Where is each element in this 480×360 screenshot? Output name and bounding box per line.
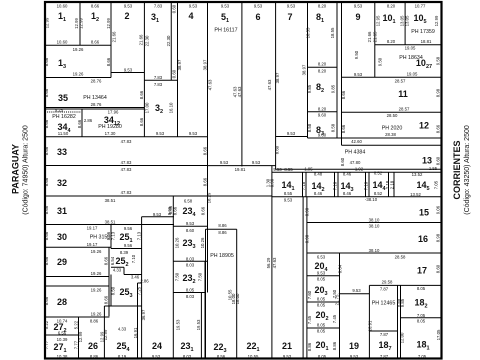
svg-text:8.66: 8.66 <box>44 88 49 97</box>
svg-text:47.63: 47.63 <box>267 79 272 90</box>
svg-text:8.05: 8.05 <box>317 303 326 308</box>
svg-text:PH 2020: PH 2020 <box>382 126 403 132</box>
svg-text:42.60: 42.60 <box>351 139 362 144</box>
svg-text:12.99: 12.99 <box>106 18 111 29</box>
svg-text:19.05: 19.05 <box>407 72 418 77</box>
svg-text:19.26: 19.26 <box>91 312 102 317</box>
svg-text:9.53: 9.53 <box>317 271 326 276</box>
svg-text:12.99: 12.99 <box>79 18 84 29</box>
svg-text:8.46: 8.46 <box>314 191 323 196</box>
svg-text:8.66: 8.66 <box>341 90 346 99</box>
wire verticals top row <box>79 2 81 45</box>
svg-text:9.53: 9.53 <box>153 212 162 217</box>
svg-text:10.74: 10.74 <box>57 318 68 323</box>
svg-text:36.97: 36.97 <box>141 309 146 320</box>
svg-text:9.85: 9.85 <box>307 84 312 93</box>
svg-text:7.87: 7.87 <box>380 286 389 291</box>
svg-text:8.66: 8.66 <box>104 295 109 304</box>
svg-text:8.66: 8.66 <box>139 90 144 99</box>
svg-text:8.66: 8.66 <box>104 256 109 265</box>
svg-text:21.66: 21.66 <box>112 31 117 42</box>
svg-text:12.99: 12.99 <box>78 331 83 342</box>
svg-text:2.86: 2.86 <box>84 118 93 123</box>
svg-text:30: 30 <box>57 232 67 242</box>
svg-text:2.18: 2.18 <box>389 180 394 189</box>
svg-text:0.60: 0.60 <box>171 69 176 78</box>
svg-text:9.53: 9.53 <box>186 221 195 226</box>
svg-text:47.83: 47.83 <box>121 167 132 172</box>
svg-text:6.56: 6.56 <box>58 331 67 336</box>
svg-text:8.98: 8.98 <box>305 207 310 216</box>
svg-text:19.05: 19.05 <box>405 45 416 50</box>
svg-text:9.53: 9.53 <box>220 160 229 165</box>
svg-text:PH 13464: PH 13464 <box>83 95 107 101</box>
svg-text:47.80: 47.80 <box>350 160 361 165</box>
svg-text:10.55: 10.55 <box>248 354 259 359</box>
svg-text:47.83: 47.83 <box>121 160 132 165</box>
svg-text:8.52: 8.52 <box>374 191 383 196</box>
svg-text:12.00: 12.00 <box>399 332 404 343</box>
svg-text:10.77: 10.77 <box>415 3 426 8</box>
top right PH box / 8 col <box>375 44 442 46</box>
svg-text:10.26: 10.26 <box>200 237 205 248</box>
left lower verticals <box>78 317 80 359</box>
svg-text:12.95: 12.95 <box>376 15 381 26</box>
wire horizontals <box>45 44 111 46</box>
svg-text:13.52: 13.52 <box>412 172 423 177</box>
svg-text:9.25: 9.25 <box>55 107 64 112</box>
svg-text:8.55: 8.55 <box>284 167 293 172</box>
svg-text:8.86: 8.86 <box>307 342 312 351</box>
svg-text:17: 17 <box>417 265 427 275</box>
19/18 region <box>368 285 370 358</box>
svg-text:8.66: 8.66 <box>341 124 346 133</box>
svg-text:13.05: 13.05 <box>404 15 409 26</box>
svg-text:21.75: 21.75 <box>335 294 340 305</box>
svg-text:22.30: 22.30 <box>144 35 149 46</box>
svg-text:10.60: 10.60 <box>57 3 68 8</box>
svg-text:5.22: 5.22 <box>44 320 49 329</box>
svg-text:16.91: 16.91 <box>133 327 138 338</box>
svg-text:28.57: 28.57 <box>399 107 410 112</box>
svg-text:7.60: 7.60 <box>307 290 312 299</box>
svg-text:9.53: 9.53 <box>352 288 361 293</box>
svg-text:8.66: 8.66 <box>436 124 441 133</box>
svg-text:7.10: 7.10 <box>131 254 136 263</box>
svg-text:PH 16117: PH 16117 <box>214 28 237 34</box>
svg-text:19.17: 19.17 <box>87 226 98 231</box>
svg-text:8.66: 8.66 <box>44 119 49 128</box>
svg-text:8.60: 8.60 <box>436 264 441 273</box>
svg-text:8.05: 8.05 <box>318 354 327 359</box>
svg-text:8.05: 8.05 <box>317 297 326 302</box>
svg-text:28.57: 28.57 <box>395 78 406 83</box>
svg-text:7.18: 7.18 <box>301 181 306 190</box>
svg-text:17.00: 17.00 <box>145 102 150 113</box>
svg-text:19: 19 <box>349 341 359 351</box>
svg-text:0.60: 0.60 <box>171 4 176 13</box>
svg-text:31: 31 <box>57 206 67 216</box>
svg-text:18.81: 18.81 <box>421 39 432 44</box>
svg-text:8.66: 8.66 <box>44 256 49 265</box>
svg-text:38.51: 38.51 <box>105 220 116 225</box>
svg-text:5.22: 5.22 <box>74 320 79 329</box>
svg-text:8.52: 8.52 <box>374 171 383 176</box>
svg-text:10.55: 10.55 <box>228 289 233 300</box>
svg-text:28.76: 28.76 <box>91 79 102 84</box>
svg-text:7.83: 7.83 <box>154 3 163 8</box>
svg-text:8.98: 8.98 <box>436 233 441 242</box>
svg-text:19.53: 19.53 <box>175 319 180 330</box>
svg-text:4.33: 4.33 <box>113 268 122 273</box>
svg-text:12.99: 12.99 <box>103 329 108 340</box>
svg-text:9.53: 9.53 <box>354 3 363 8</box>
svg-text:9.53: 9.53 <box>287 3 296 8</box>
svg-text:PH 4384: PH 4384 <box>345 150 366 156</box>
svg-text:13.52: 13.52 <box>410 192 421 197</box>
svg-text:9.53: 9.53 <box>283 354 292 359</box>
svg-text:38.97: 38.97 <box>275 72 280 83</box>
svg-text:21.66: 21.66 <box>139 34 144 45</box>
svg-text:18.55: 18.55 <box>330 27 335 38</box>
svg-text:8.86: 8.86 <box>218 223 227 228</box>
svg-text:19.53: 19.53 <box>196 319 201 330</box>
svg-text:6.53: 6.53 <box>317 255 326 260</box>
svg-text:8.66: 8.66 <box>139 117 144 126</box>
svg-text:26: 26 <box>88 341 98 351</box>
svg-text:9: 9 <box>355 12 360 22</box>
svg-text:35: 35 <box>58 93 68 103</box>
svg-text:9.53: 9.53 <box>189 3 198 8</box>
svg-text:7.45: 7.45 <box>307 315 312 324</box>
svg-text:(Código: 74950) Altura: 2500: (Código: 74950) Altura: 2500 <box>23 125 30 215</box>
svg-text:8.58: 8.58 <box>331 123 336 132</box>
svg-text:9.53: 9.53 <box>156 131 165 136</box>
svg-text:8.66: 8.66 <box>202 177 207 186</box>
svg-text:38.51: 38.51 <box>105 198 116 203</box>
svg-text:8.58: 8.58 <box>307 123 312 132</box>
svg-text:19.26: 19.26 <box>73 72 84 77</box>
svg-text:9.06: 9.06 <box>436 205 441 214</box>
svg-text:13: 13 <box>422 156 432 166</box>
svg-text:7.87: 7.87 <box>380 354 389 359</box>
svg-text:19.17: 19.17 <box>87 242 98 247</box>
svg-text:9.58: 9.58 <box>436 56 441 65</box>
svg-text:8.86: 8.86 <box>332 341 337 350</box>
svg-text:7.25: 7.25 <box>136 286 141 295</box>
svg-text:8.66: 8.66 <box>44 177 49 186</box>
svg-text:9.53: 9.53 <box>254 3 263 8</box>
svg-text:33: 33 <box>57 147 67 157</box>
svg-text:7.05: 7.05 <box>418 354 427 359</box>
svg-text:8.98: 8.98 <box>305 234 310 243</box>
svg-text:16.10: 16.10 <box>169 102 174 113</box>
svg-text:PH 17359: PH 17359 <box>411 29 435 35</box>
svg-text:8.86: 8.86 <box>90 354 99 359</box>
svg-text:7: 7 <box>287 12 292 22</box>
svg-text:8.60: 8.60 <box>436 156 441 165</box>
svg-text:12: 12 <box>419 121 429 131</box>
svg-text:4: 4 <box>188 11 193 21</box>
svg-text:8.48: 8.48 <box>314 171 323 176</box>
svg-text:3.46: 3.46 <box>131 274 140 279</box>
svg-text:15: 15 <box>419 208 429 218</box>
svg-text:PH 18634: PH 18634 <box>399 55 423 61</box>
svg-text:8.20: 8.20 <box>318 61 327 66</box>
svg-text:10.39: 10.39 <box>57 337 68 342</box>
svg-text:6.58: 6.58 <box>184 198 193 203</box>
svg-text:7.45: 7.45 <box>332 314 337 323</box>
svg-text:38.97: 38.97 <box>302 64 307 75</box>
svg-text:7.50: 7.50 <box>174 272 179 281</box>
svg-text:8.86: 8.86 <box>90 318 99 323</box>
svg-text:9.56: 9.56 <box>124 243 133 248</box>
svg-text:8.03: 8.03 <box>186 263 195 268</box>
svg-text:8.20: 8.20 <box>387 39 396 44</box>
svg-text:22.30: 22.30 <box>166 35 171 46</box>
svg-text:7.83: 7.83 <box>154 82 163 87</box>
svg-text:8.46: 8.46 <box>343 191 352 196</box>
svg-text:8.60: 8.60 <box>186 228 195 233</box>
svg-text:9.53: 9.53 <box>252 160 261 165</box>
svg-text:10.26: 10.26 <box>174 237 179 248</box>
svg-text:8.86: 8.86 <box>218 230 227 235</box>
svg-text:PH 19280: PH 19280 <box>98 124 122 130</box>
svg-text:8.66: 8.66 <box>201 206 206 215</box>
svg-text:19.26: 19.26 <box>91 249 102 254</box>
svg-text:8.66: 8.66 <box>173 206 178 215</box>
svg-text:8.60: 8.60 <box>275 145 280 154</box>
svg-text:28.38: 28.38 <box>385 132 396 137</box>
svg-text:8.39: 8.39 <box>120 250 129 255</box>
svg-text:8.66: 8.66 <box>202 146 207 155</box>
svg-text:8.66: 8.66 <box>44 231 49 240</box>
svg-text:8.60: 8.60 <box>340 157 345 166</box>
svg-text:7.77: 7.77 <box>44 340 49 349</box>
svg-text:7.18: 7.18 <box>363 181 368 190</box>
svg-text:9.53: 9.53 <box>354 72 363 77</box>
svg-text:8.66: 8.66 <box>91 40 100 45</box>
svg-text:PARAGUAY: PARAGUAY <box>11 144 21 194</box>
svg-text:47.83: 47.83 <box>121 139 132 144</box>
svg-text:12.99: 12.99 <box>44 17 49 28</box>
svg-text:1.55: 1.55 <box>429 166 438 171</box>
svg-text:9.85: 9.85 <box>400 298 405 307</box>
svg-text:8.05: 8.05 <box>417 318 426 323</box>
svg-text:8.05: 8.05 <box>317 329 326 334</box>
svg-text:9.50: 9.50 <box>378 57 383 66</box>
svg-text:38.97: 38.97 <box>202 59 207 70</box>
svg-text:8.98: 8.98 <box>436 88 441 97</box>
svg-text:19.81: 19.81 <box>235 167 246 172</box>
svg-text:38.97: 38.97 <box>177 59 182 70</box>
svg-text:PH 12465: PH 12465 <box>372 301 396 307</box>
svg-text:8.05: 8.05 <box>417 286 426 291</box>
svg-text:8.05: 8.05 <box>317 277 326 282</box>
23 column <box>172 196 174 359</box>
svg-text:9.53: 9.53 <box>284 198 293 203</box>
svg-text:18.55: 18.55 <box>306 27 311 38</box>
svg-text:9.85: 9.85 <box>331 84 336 93</box>
svg-text:1.30: 1.30 <box>266 178 271 187</box>
svg-text:8.50: 8.50 <box>110 286 115 295</box>
svg-text:8.66: 8.66 <box>44 57 49 66</box>
svg-text:47.63: 47.63 <box>237 86 242 97</box>
svg-text:9.50: 9.50 <box>354 50 359 59</box>
svg-text:8.66: 8.66 <box>167 206 172 215</box>
svg-text:17.05: 17.05 <box>436 329 441 340</box>
svg-text:7.50: 7.50 <box>198 272 203 281</box>
svg-text:29: 29 <box>57 257 67 267</box>
22/21 region <box>206 228 237 230</box>
svg-text:2.86: 2.86 <box>140 279 149 284</box>
svg-text:38.10: 38.10 <box>369 217 380 222</box>
svg-text:8.64: 8.64 <box>338 264 343 273</box>
svg-text:38.10: 38.10 <box>369 224 380 229</box>
svg-text:9.53: 9.53 <box>273 167 282 172</box>
svg-text:56.29: 56.29 <box>266 257 271 268</box>
svg-text:9.53: 9.53 <box>350 354 359 359</box>
svg-text:32: 32 <box>57 178 67 188</box>
svg-text:8.66: 8.66 <box>91 3 100 8</box>
svg-text:8.56: 8.56 <box>217 354 226 359</box>
svg-text:7.87: 7.87 <box>380 332 389 337</box>
svg-text:7.05: 7.05 <box>434 180 439 189</box>
svg-text:9.53: 9.53 <box>287 131 296 136</box>
svg-text:8.20: 8.20 <box>318 3 327 8</box>
svg-text:8.66: 8.66 <box>106 57 111 66</box>
svg-text:47.63: 47.63 <box>272 257 277 268</box>
svg-text:47.63: 47.63 <box>208 79 213 90</box>
svg-text:16.91: 16.91 <box>368 320 373 331</box>
svg-text:10.60: 10.60 <box>57 40 68 45</box>
svg-text:19.26: 19.26 <box>73 47 84 52</box>
svg-text:9.53: 9.53 <box>124 3 133 8</box>
svg-text:6: 6 <box>255 12 260 22</box>
right ladder 15/16/17 <box>306 197 308 359</box>
svg-text:8.66: 8.66 <box>77 119 82 128</box>
svg-text:19.26: 19.26 <box>91 288 102 293</box>
svg-text:19.26: 19.26 <box>91 271 102 276</box>
svg-text:9.56: 9.56 <box>124 226 133 231</box>
svg-text:9.60: 9.60 <box>318 133 327 138</box>
svg-text:(Código: 43250) Altura: 2500: (Código: 43250) Altura: 2500 <box>464 125 471 215</box>
20 boxes <box>307 275 340 277</box>
svg-text:12.99: 12.99 <box>434 15 439 26</box>
svg-text:28.76: 28.76 <box>91 102 102 107</box>
svg-text:9.53: 9.53 <box>152 354 161 359</box>
svg-text:10.38: 10.38 <box>57 354 68 359</box>
svg-text:17.30: 17.30 <box>105 131 116 136</box>
svg-text:8.05: 8.05 <box>317 323 326 328</box>
svg-text:4.33: 4.33 <box>118 326 127 331</box>
svg-text:8.55: 8.55 <box>284 191 293 196</box>
svg-text:2: 2 <box>124 11 129 21</box>
svg-text:8.03: 8.03 <box>183 354 192 359</box>
svg-text:8.20: 8.20 <box>318 106 327 111</box>
svg-text:9.53: 9.53 <box>124 68 133 73</box>
svg-text:8.66: 8.66 <box>44 205 49 214</box>
svg-text:8.03: 8.03 <box>186 256 195 261</box>
svg-text:8.05: 8.05 <box>186 288 195 293</box>
svg-text:28: 28 <box>57 297 67 307</box>
svg-text:PH 16282: PH 16282 <box>52 114 76 120</box>
svg-text:18.29: 18.29 <box>206 192 211 203</box>
svg-text:1.95: 1.95 <box>304 167 313 172</box>
svg-text:7.83: 7.83 <box>154 75 163 80</box>
svg-text:21.66: 21.66 <box>367 31 372 42</box>
svg-text:8.46: 8.46 <box>343 171 352 176</box>
svg-text:38.10: 38.10 <box>369 248 380 253</box>
svg-text:6.54: 6.54 <box>110 256 115 265</box>
svg-text:21.65: 21.65 <box>373 31 378 42</box>
svg-text:9.60: 9.60 <box>318 112 327 117</box>
svg-text:7.13: 7.13 <box>136 231 141 240</box>
svg-text:8.03: 8.03 <box>186 294 195 299</box>
svg-text:8.19: 8.19 <box>118 354 127 359</box>
svg-text:8.66: 8.66 <box>44 146 49 155</box>
svg-text:29.58: 29.58 <box>382 280 393 285</box>
svg-text:8.20: 8.20 <box>318 69 327 74</box>
svg-text:18.00: 18.00 <box>235 293 240 304</box>
svg-text:8.20: 8.20 <box>387 3 396 8</box>
svg-text:-38.10: -38.10 <box>365 197 378 202</box>
svg-text:47.83: 47.83 <box>121 190 132 195</box>
svg-text:24: 24 <box>152 341 162 351</box>
svg-text:17.96: 17.96 <box>108 110 119 115</box>
svg-text:7.13: 7.13 <box>111 231 116 240</box>
svg-text:9.53: 9.53 <box>189 131 198 136</box>
svg-text:21: 21 <box>282 341 292 351</box>
14 row <box>302 172 304 196</box>
svg-text:9.53: 9.53 <box>221 3 230 8</box>
svg-text:28.50: 28.50 <box>387 113 398 118</box>
svg-text:11.50: 11.50 <box>58 131 69 136</box>
svg-text:1.92: 1.92 <box>355 167 364 172</box>
svg-text:7.05: 7.05 <box>417 313 426 318</box>
svg-text:28.58: 28.58 <box>395 254 406 259</box>
svg-text:CORRIENTES: CORRIENTES <box>452 140 462 199</box>
svg-text:11: 11 <box>398 89 408 99</box>
svg-text:PH 18905: PH 18905 <box>210 253 234 259</box>
svg-text:16: 16 <box>418 234 428 244</box>
svg-text:7.18: 7.18 <box>332 181 337 190</box>
svg-text:8.66: 8.66 <box>44 296 49 305</box>
